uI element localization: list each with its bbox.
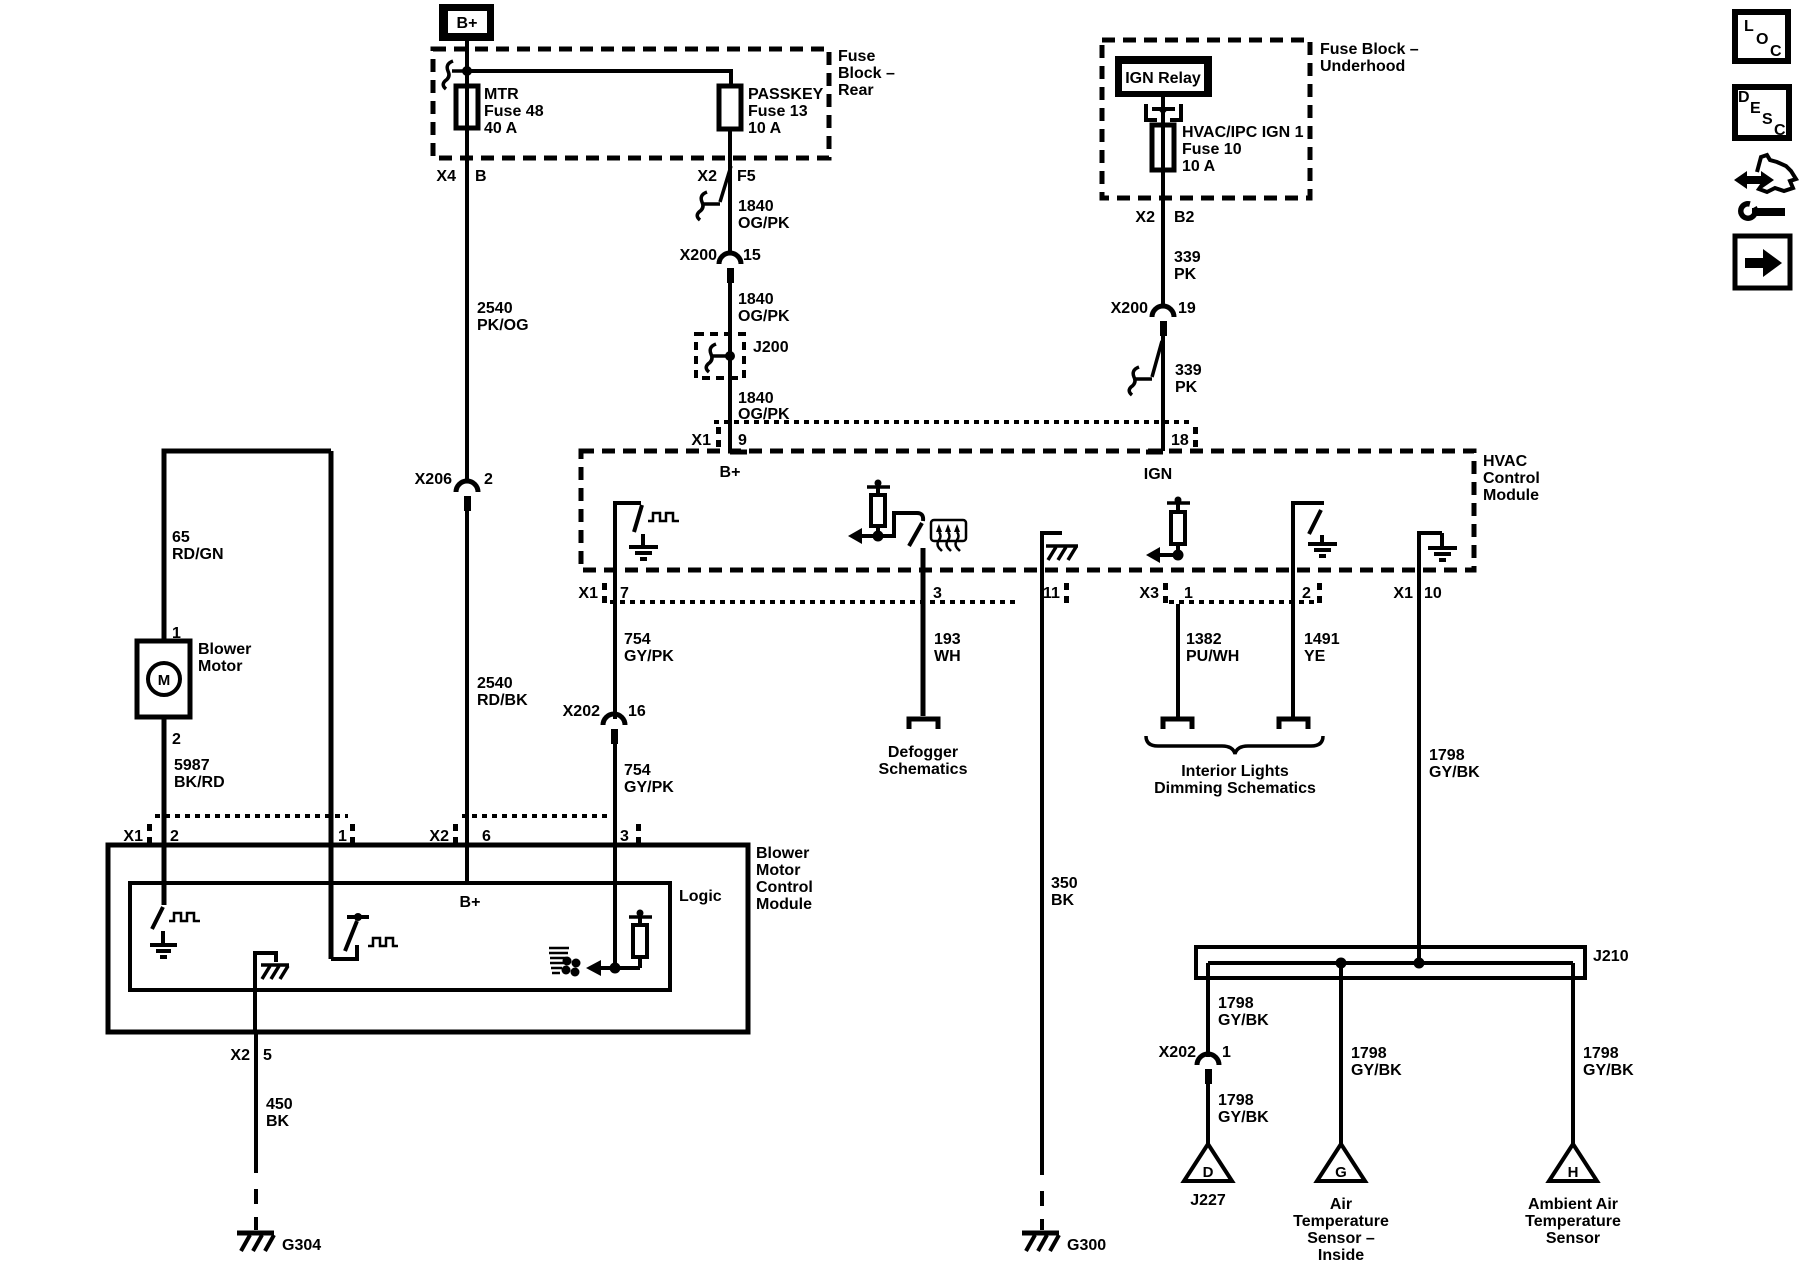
blower motor M [137, 641, 251, 717]
ground G300 [1022, 1178, 1106, 1254]
wire 1840 OG/PK to HVAC pin 9 [728, 283, 732, 451]
svg-text:BK/RD: BK/RD [174, 774, 225, 791]
svg-text:G304: G304 [282, 1237, 321, 1254]
svg-text:1491: 1491 [1304, 631, 1340, 648]
Blower Motor Control Module box [108, 845, 813, 1032]
svg-text:Module: Module [756, 896, 812, 913]
wire label 1840 OG/PK (2) [738, 291, 790, 325]
splice block J210 [1196, 947, 1629, 978]
HVAC pin 9 elbow at module edge [730, 450, 747, 455]
in-line connector X202 pin 16 [563, 703, 646, 744]
bus from B+ wire to PASSKEY fuse [467, 71, 731, 86]
svg-text:Fuse: Fuse [838, 48, 875, 65]
svg-text:1798: 1798 [1429, 747, 1465, 764]
svg-text:1840: 1840 [738, 390, 774, 407]
wire label 1382 PU/WH [1186, 631, 1239, 665]
svg-text:3: 3 [933, 585, 942, 602]
wire label 2540 RD/BK [477, 675, 528, 709]
connector label X2 / F5 [697, 168, 755, 185]
wire label 1798 GY/BK (main) [1429, 747, 1480, 781]
svg-text:X2: X2 [697, 168, 717, 185]
svg-text:GY/PK: GY/PK [624, 648, 674, 665]
svg-text:PK: PK [1174, 266, 1197, 283]
svg-text:Sensor –: Sensor – [1307, 1230, 1375, 1247]
svg-text:X202: X202 [1159, 1044, 1196, 1061]
connector label X4 | B [436, 168, 486, 185]
Fuse Block - Underhood label [1320, 41, 1419, 75]
svg-text:450: 450 [266, 1096, 293, 1113]
svg-text:1840: 1840 [738, 291, 774, 308]
wire label 1798 GY/BK (branch G) [1351, 1045, 1402, 1079]
svg-text:2540: 2540 [477, 300, 513, 317]
in-line connector X200 pin 19 [1111, 300, 1196, 336]
wire label 339 PK (1) [1174, 249, 1201, 283]
svg-text:L: L [1744, 18, 1754, 35]
svg-text:19: 19 [1178, 300, 1196, 317]
svg-text:7: 7 [620, 585, 629, 602]
wire HVAC pin 10 to J210 [1417, 604, 1421, 963]
svg-text:GY/BK: GY/BK [1218, 1109, 1269, 1126]
HVAC lower connector strip [578, 583, 1441, 603]
svg-text:1798: 1798 [1351, 1045, 1387, 1062]
icon DESC box [1735, 87, 1789, 139]
svg-text:Schematics: Schematics [879, 761, 968, 778]
svg-text:D: D [1203, 1164, 1214, 1181]
Fuse Block - Rear label [838, 48, 895, 99]
wire fuse 10 to X200 pin 19 [1161, 125, 1165, 306]
HVAC defogger driver resistor and output [848, 480, 923, 547]
HVAC pin 7 PWM switch to ground [615, 503, 679, 570]
in-line connector X200 pin 15 [680, 247, 761, 283]
ground G304 [237, 1176, 321, 1254]
Fuse Block - Underhood dashed box [1102, 40, 1310, 198]
splice J200 [696, 334, 789, 378]
svg-text:X200: X200 [680, 247, 717, 264]
svg-text:J200: J200 [753, 339, 789, 356]
svg-text:E: E [1750, 100, 1761, 117]
svg-text:339: 339 [1175, 362, 1202, 379]
wire 754 GY/PK to blower module pin 3 [613, 744, 617, 968]
svg-text:339: 339 [1174, 249, 1201, 266]
svg-text:G: G [1335, 1164, 1347, 1181]
svg-text:X1: X1 [1393, 585, 1413, 602]
svg-text:RD/GN: RD/GN [172, 546, 224, 563]
svg-text:X2: X2 [1135, 209, 1155, 226]
svg-text:Logic: Logic [679, 888, 722, 905]
svg-text:Temperature: Temperature [1525, 1213, 1621, 1230]
svg-text:3: 3 [620, 828, 629, 845]
svg-text:X202: X202 [563, 703, 600, 720]
wire label 1798 GY/BK (branch D lower) [1218, 1092, 1269, 1126]
svg-text:1: 1 [338, 828, 347, 845]
svg-text:Fuse 10: Fuse 10 [1182, 141, 1242, 158]
svg-text:5: 5 [263, 1047, 272, 1064]
svg-text:X206: X206 [415, 471, 452, 488]
svg-text:10: 10 [1424, 585, 1442, 602]
svg-text:BK: BK [266, 1113, 290, 1130]
icon vehicle data double-arrow and wrench [1734, 155, 1796, 221]
wire label 1798 GY/BK (branch H) [1583, 1045, 1634, 1079]
fuse MTR Fuse 48 [456, 86, 544, 137]
wire pin 2 to dimming [1291, 604, 1295, 719]
wire label 1840 OG/PK (3) [738, 390, 790, 423]
svg-text:65: 65 [172, 529, 190, 546]
wire loop blower feed (65 RD/GN) [164, 451, 331, 641]
connector label X2 | 5 [230, 1047, 272, 1064]
svg-text:BK: BK [1051, 892, 1075, 909]
svg-text:PU/WH: PU/WH [1186, 648, 1239, 665]
IGN Relay box [1115, 56, 1212, 97]
blower module pin 2 PWM switch to ground [150, 907, 200, 957]
svg-text:Fuse Block –: Fuse Block – [1320, 41, 1419, 58]
svg-text:HVAC/IPC IGN 1: HVAC/IPC IGN 1 [1182, 124, 1304, 141]
svg-text:X1: X1 [578, 585, 598, 602]
Logic box [130, 883, 722, 990]
wire label 754 GY/PK (2) [624, 762, 674, 796]
svg-text:1: 1 [1184, 585, 1193, 602]
svg-text:1798: 1798 [1218, 1092, 1254, 1109]
svg-text:Control: Control [1483, 470, 1540, 487]
defogger grid icon [931, 520, 966, 551]
svg-text:Defogger: Defogger [888, 744, 958, 761]
icon arrow box [1735, 236, 1790, 288]
off-page connector to Defogger Schematics [879, 719, 968, 778]
HVAC Control Module dashed box [581, 451, 1474, 570]
wire label 754 GY/PK (1) [624, 631, 674, 665]
svg-text:RD/BK: RD/BK [477, 692, 528, 709]
svg-text:YE: YE [1304, 648, 1326, 665]
blower module chassis ground (X2-5) [255, 953, 289, 1032]
svg-text:754: 754 [624, 762, 651, 779]
svg-text:X1: X1 [691, 432, 711, 449]
svg-text:J210: J210 [1593, 948, 1629, 965]
svg-text:HVAC: HVAC [1483, 453, 1528, 470]
svg-text:H: H [1568, 1164, 1579, 1181]
svg-text:Dimming Schematics: Dimming Schematics [1154, 780, 1316, 797]
svg-text:5987: 5987 [174, 757, 210, 774]
icon LOC box [1735, 12, 1788, 61]
blower module pin 1 switch with flag [331, 913, 398, 959]
svg-text:1: 1 [1222, 1044, 1231, 1061]
svg-text:B+: B+ [457, 15, 478, 32]
fan icon [549, 948, 581, 977]
svg-text:10 A: 10 A [748, 120, 782, 137]
svg-text:16: 16 [628, 703, 646, 720]
wire J210 to G sensor [1339, 963, 1343, 1147]
svg-text:G300: G300 [1067, 1237, 1106, 1254]
svg-text:Inside: Inside [1318, 1247, 1364, 1264]
terminal hook at MTR fuse feed [443, 61, 472, 89]
svg-text:WH: WH [934, 648, 961, 665]
wire blower motor to module pin 2 [162, 717, 167, 905]
svg-text:2540: 2540 [477, 675, 513, 692]
wire HVAC pin 3 to defogger [921, 548, 926, 716]
svg-text:15: 15 [743, 247, 761, 264]
svg-text:X2: X2 [429, 828, 449, 845]
wire 450 BK [254, 1032, 258, 1173]
off-page connector (dimming left) [1163, 719, 1192, 729]
svg-text:OG/PK: OG/PK [738, 308, 790, 325]
svg-text:Blower: Blower [756, 845, 809, 862]
svg-text:GY/BK: GY/BK [1351, 1062, 1402, 1079]
wire IGN relay to fuse [1161, 97, 1165, 125]
brace Interior Lights Dimming Schematics [1146, 736, 1323, 797]
svg-text:D: D [1738, 89, 1750, 106]
svg-text:754: 754 [624, 631, 651, 648]
svg-text:Control: Control [756, 879, 813, 896]
svg-text:1382: 1382 [1186, 631, 1222, 648]
fuse holder clips [1146, 104, 1181, 120]
svg-text:IGN: IGN [1144, 466, 1172, 483]
Fuse Block - Rear dashed box [433, 49, 829, 158]
wire J210 to H sensor [1571, 963, 1575, 1147]
wire 339 PK to HVAC pin 18 [1161, 336, 1165, 451]
svg-text:M: M [158, 672, 171, 689]
svg-text:PK: PK [1175, 379, 1198, 396]
svg-text:B+: B+ [720, 464, 741, 481]
svg-text:Underhood: Underhood [1320, 58, 1405, 75]
wire label 450 BK [266, 1096, 293, 1130]
svg-text:18: 18 [1171, 432, 1189, 449]
svg-text:X3: X3 [1139, 585, 1159, 602]
HVAC X3 pin 1 dimming resistor [1146, 497, 1190, 564]
svg-text:Ambient Air: Ambient Air [1528, 1196, 1618, 1213]
off-page connector (dimming right) [1279, 719, 1308, 729]
svg-text:S: S [1762, 111, 1773, 128]
svg-text:X4: X4 [436, 168, 456, 185]
B+ battery feed box [439, 4, 494, 41]
wire J210 to X202-1 [1206, 963, 1210, 1057]
in-line connector X206 pin 2 [415, 471, 493, 511]
svg-text:Air: Air [1330, 1196, 1352, 1213]
wire loop right side to module pin 1 [329, 451, 334, 959]
svg-text:1840: 1840 [738, 198, 774, 215]
svg-text:350: 350 [1051, 875, 1078, 892]
HVAC pin 18 elbow at module edge [1146, 450, 1163, 455]
svg-text:Block –: Block – [838, 65, 895, 82]
wire label 1491 YE [1304, 631, 1340, 665]
svg-text:C: C [1774, 122, 1786, 139]
svg-text:B2: B2 [1174, 209, 1195, 226]
svg-text:9: 9 [738, 432, 747, 449]
svg-text:GY/BK: GY/BK [1429, 764, 1480, 781]
fuse HVAC/IPC IGN 1 Fuse 10 [1152, 124, 1304, 175]
svg-text:2: 2 [172, 731, 181, 748]
wire B+ / 2540 PK/OG down to X206 [465, 41, 469, 481]
svg-text:6: 6 [482, 828, 491, 845]
svg-text:MTR: MTR [484, 86, 519, 103]
svg-text:IGN Relay: IGN Relay [1125, 70, 1201, 87]
svg-text:B+: B+ [460, 894, 481, 911]
fuse PASSKEY Fuse 13 [719, 86, 824, 137]
terminal splice on 339 PK [1129, 341, 1162, 395]
wire X206 to module B+ (2540 RD/BK) [465, 510, 469, 884]
wire label 2540 PK/OG [477, 300, 529, 334]
svg-text:1798: 1798 [1218, 995, 1254, 1012]
HVAC pin 2 switch to ground [1293, 503, 1337, 604]
HVAC Control Module label [1483, 453, 1540, 504]
svg-text:X2: X2 [230, 1047, 250, 1064]
svg-text:Fuse 48: Fuse 48 [484, 103, 544, 120]
svg-text:Rear: Rear [838, 82, 874, 99]
blower module connector strip [123, 816, 641, 845]
wire label 1840 OG/PK (1) [738, 198, 790, 232]
svg-text:2: 2 [484, 471, 493, 488]
triangle connector H [1525, 1144, 1621, 1247]
svg-text:GY/BK: GY/BK [1218, 1012, 1269, 1029]
svg-text:C: C [1770, 43, 1782, 60]
svg-text:PK/OG: PK/OG [477, 317, 529, 334]
HVAC X1 pin 10 ground [1419, 533, 1457, 604]
svg-text:OG/PK: OG/PK [738, 215, 790, 232]
svg-text:B: B [475, 168, 487, 185]
triangle connector G [1293, 1144, 1389, 1264]
svg-text:1798: 1798 [1583, 1045, 1619, 1062]
svg-text:X200: X200 [1111, 300, 1148, 317]
triangle connector D [1184, 1144, 1232, 1209]
wire label 193 WH [934, 631, 961, 665]
svg-text:Motor: Motor [756, 862, 800, 879]
svg-text:40 A: 40 A [484, 120, 518, 137]
svg-text:193: 193 [934, 631, 961, 648]
svg-text:Blower: Blower [198, 641, 251, 658]
wire label 1798 GY/BK (branch D upper) [1218, 995, 1269, 1029]
svg-text:Fuse 13: Fuse 13 [748, 103, 808, 120]
svg-text:GY/PK: GY/PK [624, 779, 674, 796]
wire label 5987 BK/RD [174, 757, 225, 791]
svg-text:F5: F5 [737, 168, 756, 185]
wire PASSKEY fuse down to HVAC module [728, 129, 732, 253]
wire X3-1 to dimming [1176, 604, 1180, 719]
terminal symbol at X2/F5 [697, 166, 731, 220]
in-line connector X202 pin 1 [1159, 1044, 1231, 1084]
svg-text:Sensor: Sensor [1546, 1230, 1600, 1247]
svg-text:GY/BK: GY/BK [1583, 1062, 1634, 1079]
svg-text:PASSKEY: PASSKEY [748, 86, 824, 103]
svg-text:10 A: 10 A [1182, 158, 1216, 175]
wire label 339 PK (2) [1175, 362, 1202, 396]
blower module fan drive resistor [586, 910, 652, 977]
svg-text:2: 2 [170, 828, 179, 845]
svg-text:X1: X1 [123, 828, 143, 845]
wire HVAC pin 7 to X202-16 [613, 570, 617, 719]
svg-text:Module: Module [1483, 487, 1539, 504]
svg-text:Motor: Motor [198, 658, 242, 675]
svg-text:11: 11 [1043, 585, 1060, 602]
svg-text:J227: J227 [1190, 1192, 1226, 1209]
svg-text:Interior Lights: Interior Lights [1181, 763, 1289, 780]
wire label 65 RD/GN [172, 529, 224, 563]
svg-text:O: O [1756, 31, 1768, 48]
svg-text:Temperature: Temperature [1293, 1213, 1389, 1230]
HVAC pin 11 chassis ground [1042, 533, 1078, 604]
connector label X2 | B2 [1135, 209, 1194, 226]
svg-text:2: 2 [1302, 585, 1311, 602]
wire HVAC pin 11 to G300 [1040, 604, 1044, 1175]
X1 connector strip (top of HVAC) [691, 422, 1198, 449]
wire label 350 BK [1051, 875, 1078, 909]
